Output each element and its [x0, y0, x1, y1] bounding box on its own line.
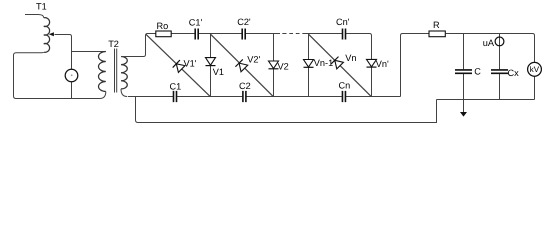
diode V2 [273, 34, 275, 62]
capacitor C2 [243, 91, 246, 102]
wire diagonal stage n [309, 34, 372, 97]
voltmeter V wires [71, 52, 73, 99]
svg-text:Ro: Ro [157, 21, 169, 31]
microammeter uA circle [495, 37, 504, 46]
diode Vn-1' [308, 34, 310, 60]
wire diagonal stage 2 [211, 34, 274, 97]
svg-text:T1: T1 [36, 2, 47, 12]
kilovoltmeter kV wire [534, 76, 536, 99]
svg-text:uA: uA [483, 38, 495, 48]
wire T2 secondary top to rail [121, 34, 148, 57]
diode Vn [331, 57, 344, 70]
diode V2' [235, 59, 248, 72]
ground arrow [460, 112, 467, 117]
kilovoltmeter kV circle [528, 62, 542, 76]
transformer T2 core [115, 49, 117, 93]
wire top rail right section [446, 34, 535, 63]
transformer T2 primary [99, 52, 106, 92]
svg-text:R: R [433, 20, 440, 30]
svg-text:V1: V1 [213, 67, 224, 77]
voltmeter V circle [65, 69, 78, 82]
diode V1' [173, 60, 186, 73]
resistor R [429, 31, 445, 37]
wire diagonal stage 1 [146, 34, 211, 97]
capacitor C [455, 70, 472, 73]
ground stem [463, 100, 465, 113]
diode Vn' [371, 36, 373, 60]
diode V1 [210, 34, 212, 58]
capacitor C1 [174, 91, 177, 102]
svg-text:V1': V1' [184, 58, 197, 68]
cascade bottom rail [128, 96, 401, 98]
svg-text:Cx: Cx [508, 68, 520, 78]
wire input stub [25, 15, 44, 18]
wire lower return [136, 97, 437, 123]
svg-text:V2': V2' [247, 55, 260, 65]
capacitor C1' [195, 29, 198, 40]
wire T1 bottom loop [14, 52, 106, 98]
variac T1 coil [44, 18, 50, 53]
wire output riser [401, 34, 429, 97]
capacitor Cn' [343, 29, 346, 40]
svg-text:C2: C2 [239, 81, 251, 91]
wire T2 secondary bottom to rail [121, 89, 127, 97]
svg-text:C2': C2' [237, 17, 251, 27]
wire capacitor C branch [463, 34, 465, 100]
wire T1 tap to T2 primary [55, 35, 106, 52]
svg-text:V2: V2 [278, 61, 289, 71]
svg-text:T2: T2 [108, 39, 119, 49]
capacitor Cn [342, 91, 345, 102]
svg-text:Cn': Cn' [336, 17, 350, 27]
bottom rail right section [437, 99, 535, 101]
svg-text:C1: C1 [170, 81, 182, 91]
capacitor C2' [242, 29, 245, 40]
svg-text:Vn': Vn' [376, 59, 389, 69]
svg-text:Vn: Vn [345, 53, 356, 63]
resistor Ro [156, 31, 171, 37]
variac T1 wiper arrow [49, 32, 54, 36]
svg-text:C1': C1' [189, 17, 203, 27]
cascade top rail [147, 34, 372, 36]
microammeter uA wires [499, 34, 501, 70]
dashed continuation top rail [282, 33, 299, 35]
svg-text:kV: kV [530, 65, 540, 74]
wire below Cx [499, 74, 501, 100]
svg-text:C: C [474, 67, 481, 77]
svg-text:Cn: Cn [339, 80, 351, 90]
transformer T2 secondary [121, 57, 127, 89]
capacitor Cx [491, 70, 508, 73]
